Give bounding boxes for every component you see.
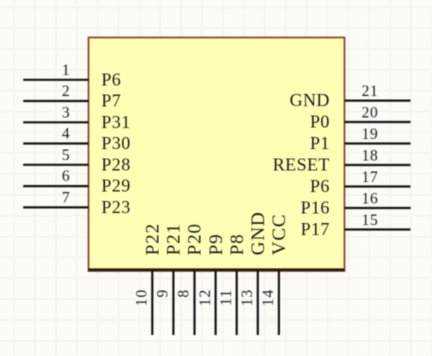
svg-text:9: 9 [155, 289, 172, 298]
svg-text:18: 18 [362, 148, 379, 165]
svg-text:17: 17 [362, 169, 379, 186]
svg-text:7: 7 [62, 189, 70, 206]
svg-text:15: 15 [362, 212, 379, 229]
pin 7 (P23) left [23, 189, 130, 217]
svg-text:5: 5 [62, 147, 70, 164]
svg-text:P30: P30 [101, 133, 130, 153]
pin 20 (P0) right [310, 105, 411, 132]
pin 2 (P7) left [23, 83, 121, 111]
svg-text:10: 10 [134, 289, 151, 307]
svg-text:P9: P9 [206, 233, 227, 255]
svg-text:2: 2 [62, 83, 70, 100]
svg-text:1: 1 [62, 62, 70, 79]
pin 17 (P6) right [310, 169, 411, 196]
svg-text:4: 4 [62, 126, 70, 143]
pin 21 (GND) right [290, 83, 411, 110]
svg-text:12: 12 [197, 289, 214, 307]
svg-text:P31: P31 [101, 112, 130, 132]
svg-text:GND: GND [248, 211, 269, 255]
pin 4 (P30) left [23, 126, 130, 154]
svg-text:P17: P17 [301, 219, 330, 239]
svg-text:P20: P20 [185, 223, 206, 255]
pin 14 (VCC) bottom [260, 214, 290, 335]
pin 11 (P8) bottom [218, 233, 248, 335]
pin 1 (P6) left [23, 62, 121, 90]
pin 15 (P17) right [301, 212, 411, 239]
svg-text:RESET: RESET [273, 155, 330, 175]
svg-text:P6: P6 [310, 176, 330, 196]
svg-text:P6: P6 [101, 69, 121, 89]
pin 8 (P20) bottom [176, 223, 206, 335]
svg-text:P16: P16 [301, 198, 330, 218]
pin 9 (P21) bottom [155, 223, 185, 335]
svg-text:P0: P0 [310, 112, 330, 132]
pin 6 (P29) left [23, 168, 130, 196]
svg-text:GND: GND [290, 90, 330, 110]
svg-text:14: 14 [260, 289, 277, 307]
IC body U1 [89, 38, 345, 272]
pin 19 (P1) right [310, 126, 411, 153]
svg-text:P8: P8 [227, 233, 248, 255]
svg-text:20: 20 [362, 105, 379, 122]
svg-text:P21: P21 [164, 223, 185, 255]
svg-text:VCC: VCC [269, 214, 290, 256]
pin 13 (GND) bottom [239, 211, 269, 335]
svg-text:P29: P29 [101, 176, 130, 196]
svg-text:16: 16 [362, 191, 379, 208]
svg-text:P28: P28 [101, 154, 130, 174]
svg-text:13: 13 [239, 289, 256, 307]
svg-text:P22: P22 [143, 223, 164, 255]
pin 16 (P16) right [301, 191, 411, 218]
svg-text:6: 6 [62, 168, 70, 185]
svg-text:P1: P1 [310, 133, 330, 153]
pin 10 (P22) bottom [134, 223, 164, 335]
pin 18 (RESET) right [273, 148, 411, 175]
svg-text:3: 3 [62, 104, 70, 121]
pin 3 (P31) left [23, 104, 130, 132]
svg-text:P7: P7 [101, 91, 121, 111]
pin 12 (P9) bottom [197, 233, 227, 335]
svg-text:19: 19 [362, 126, 379, 143]
svg-text:8: 8 [176, 289, 193, 298]
svg-text:P23: P23 [101, 197, 130, 217]
svg-text:11: 11 [218, 289, 235, 306]
pin 5 (P28) left [23, 147, 130, 175]
svg-text:21: 21 [362, 83, 379, 100]
